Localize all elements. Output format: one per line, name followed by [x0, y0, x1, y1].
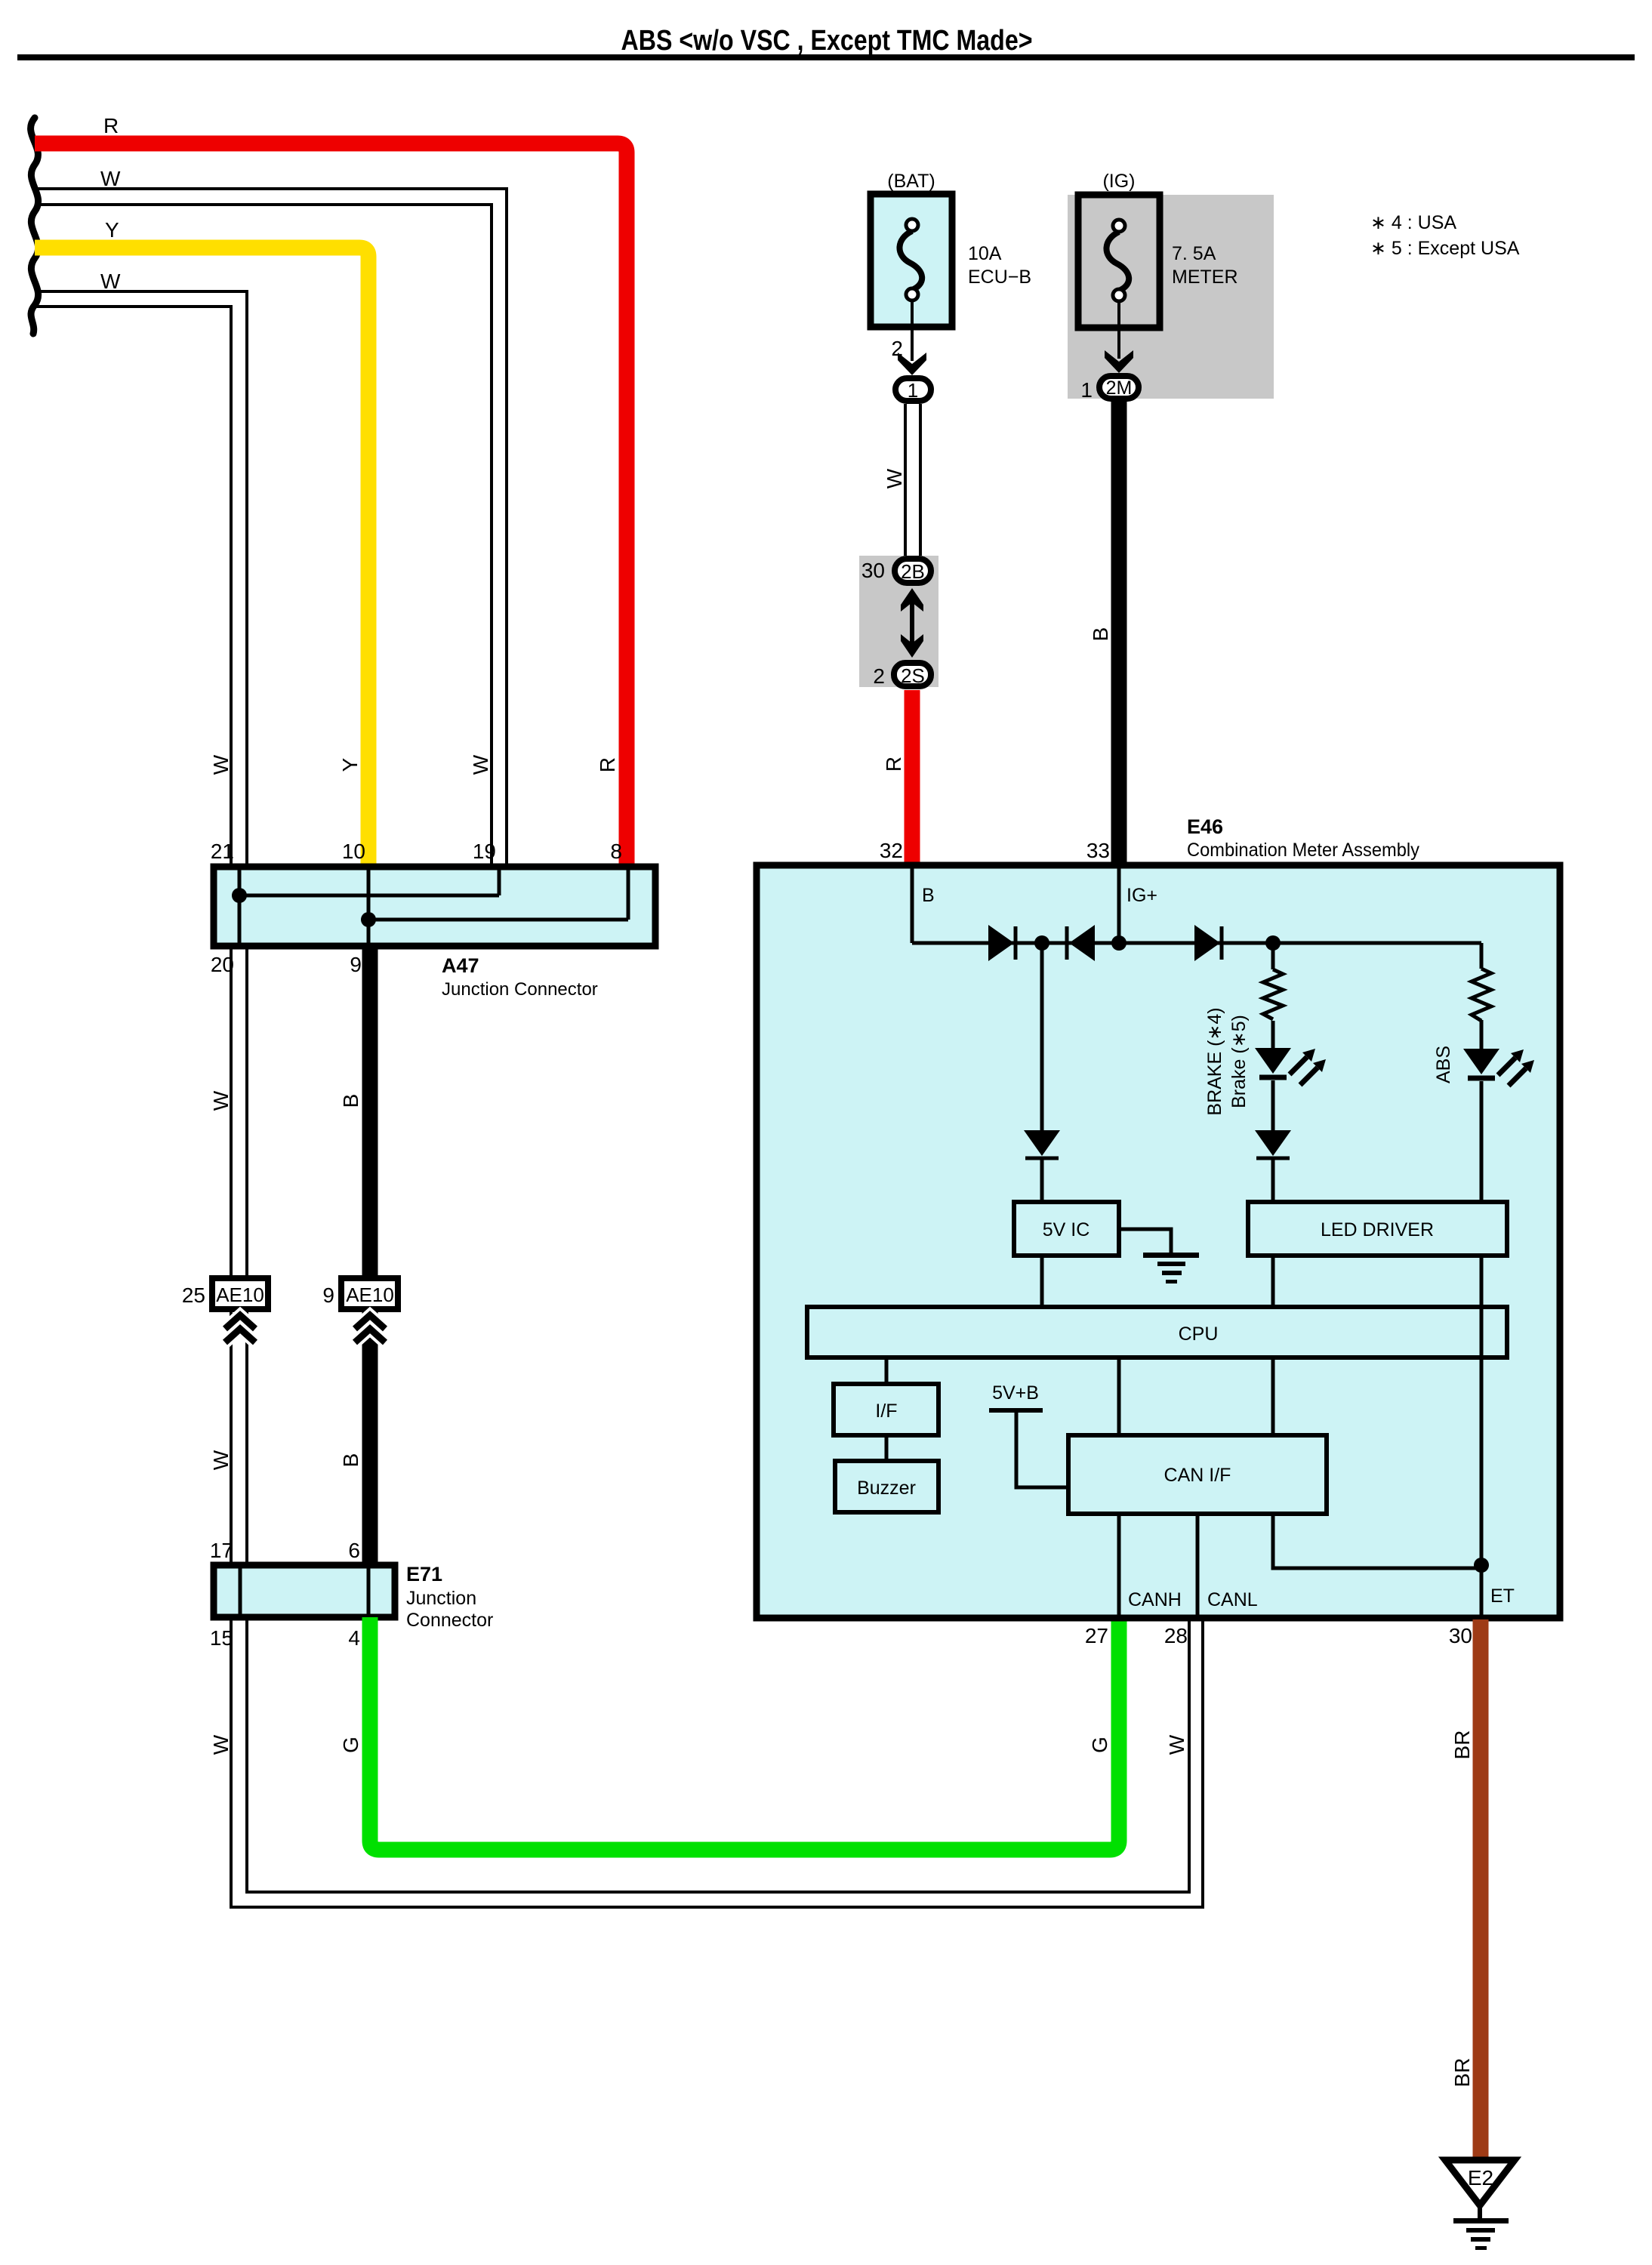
- svg-text:W: W: [209, 1090, 233, 1111]
- A47 internal link 10-8: [368, 918, 628, 922]
- wire W (left harness to A47 pin 21) : double line: [35, 291, 247, 867]
- svg-text:1: 1: [1080, 378, 1093, 402]
- in-line connector AE10 (pin 25, W wire): [212, 1278, 268, 1309]
- svg-text:2: 2: [873, 664, 885, 688]
- junction dot (D1/D2 node): [1034, 935, 1049, 951]
- svg-text:∗ 4 : USA: ∗ 4 : USA: [1370, 212, 1456, 233]
- svg-text:28: 28: [1164, 1624, 1188, 1647]
- svg-text:Brake (∗5): Brake (∗5): [1228, 1015, 1250, 1108]
- 5V IC block: [1014, 1202, 1119, 1256]
- connector oval 2M: [1099, 376, 1139, 399]
- connector oval 1: [895, 378, 931, 402]
- CPU block: [807, 1307, 1507, 1357]
- svg-text:G: G: [1088, 1736, 1111, 1753]
- svg-text:B: B: [922, 885, 935, 906]
- wire CPU to CAN I/F (CANH): [1117, 1357, 1121, 1435]
- A47 internal stub pin19: [498, 870, 501, 895]
- svg-text:E2: E2: [1468, 2166, 1493, 2189]
- junction dot (BRAKE branch): [1265, 935, 1281, 951]
- svg-text:B: B: [339, 1453, 362, 1468]
- svg-text:25: 25: [182, 1283, 205, 1307]
- arrow into connector 2M: [1105, 350, 1133, 373]
- gray panel behind METER fuse: [1068, 195, 1274, 399]
- svg-text:CANH: CANH: [1128, 1589, 1182, 1610]
- BRAKE branch: resistor R1: [1271, 943, 1275, 969]
- ET net vertical through CPU: [1480, 1309, 1484, 1616]
- svg-text:B: B: [339, 1094, 362, 1108]
- power rail horizontal: [912, 941, 1481, 945]
- E71 internal bus pin17-pin15: [239, 1568, 242, 1614]
- svg-text:ET: ET: [1490, 1585, 1515, 1607]
- IG+ net vertical inside E46: [1117, 868, 1121, 943]
- svg-text:W: W: [883, 468, 906, 488]
- svg-text:8: 8: [610, 840, 622, 863]
- CANH net vertical: [1117, 1514, 1121, 1616]
- svg-text:BR: BR: [1450, 2058, 1474, 2088]
- svg-text:30: 30: [1449, 1624, 1472, 1647]
- Buzzer block: [835, 1461, 938, 1512]
- svg-text:9: 9: [350, 953, 362, 976]
- svg-text:17: 17: [210, 1539, 233, 1562]
- CAN I/F to ET link: [1273, 1514, 1481, 1568]
- wire 5V IC to CPU: [1040, 1256, 1044, 1307]
- B net vertical inside E46: [911, 868, 914, 943]
- A47 internal bus pin10-pin9: [367, 870, 371, 943]
- svg-text:ABS <w/o VSC , Except TMC Made: ABS <w/o VSC , Except TMC Made>: [621, 25, 1033, 57]
- svg-text:G: G: [339, 1736, 362, 1753]
- wire B (2M to E46 pin 33): [1111, 402, 1127, 865]
- harness tear squiggle at left edge: [31, 118, 39, 334]
- svg-text:2S: 2S: [901, 664, 925, 687]
- svg-text:CAN I/F: CAN I/F: [1164, 1465, 1231, 1486]
- svg-text:AE10: AE10: [346, 1283, 394, 1306]
- svg-text:R: R: [596, 757, 619, 772]
- svg-text:21: 21: [211, 840, 234, 863]
- svg-text:AE10: AE10: [216, 1283, 264, 1306]
- svg-text:6: 6: [348, 1539, 360, 1562]
- svg-text:9: 9: [322, 1283, 334, 1307]
- wire B (A47 pin 9 to E71 pin 6): [362, 946, 378, 1565]
- svg-text:(IG): (IG): [1102, 171, 1135, 192]
- svg-text:W: W: [469, 754, 492, 775]
- svg-text:R: R: [882, 757, 905, 772]
- junction connector A47: [214, 867, 655, 946]
- svg-text:Buzzer: Buzzer: [857, 1478, 916, 1499]
- svg-text:1: 1: [908, 379, 918, 402]
- gray panel behind 2B/2S: [859, 556, 938, 687]
- wire LED DRIVER to CPU (left): [1271, 1256, 1275, 1307]
- svg-text:Y: Y: [105, 218, 119, 242]
- svg-text:Combination Meter Assembly: Combination Meter Assembly: [1187, 840, 1419, 861]
- svg-text:I/F: I/F: [875, 1401, 897, 1422]
- A47 internal bus pin21-pin20: [238, 870, 242, 943]
- wire CPU to CAN I/F (right): [1271, 1357, 1275, 1435]
- connector oval 2S: [894, 663, 931, 687]
- wire Y (left harness to A47 pin 10): [35, 248, 368, 867]
- fuse METER (IG): [1078, 171, 1160, 328]
- svg-text:E46: E46: [1187, 815, 1223, 838]
- ground bars: [1143, 1253, 1199, 1258]
- svg-text:CANL: CANL: [1207, 1589, 1258, 1610]
- 5V branch vertical: [1040, 943, 1044, 1130]
- wire CPU to I/F: [885, 1357, 889, 1384]
- svg-text:32: 32: [880, 839, 903, 862]
- svg-text:R: R: [103, 114, 119, 137]
- svg-text:METER: METER: [1172, 267, 1238, 288]
- svg-text:W: W: [100, 270, 121, 293]
- ABS branch: corner from rail: [1480, 943, 1484, 969]
- internal ground from 5V IC: [1120, 1229, 1171, 1253]
- BRAKE warning LED: [1255, 1048, 1291, 1074]
- wire BR (E46 pin 30 to E2): [1473, 1619, 1489, 2158]
- svg-text:Y: Y: [338, 757, 362, 772]
- fuse output lead with arrow: [1117, 301, 1120, 359]
- A47 internal stub pin8: [627, 870, 630, 920]
- junction dot (ET node): [1474, 1558, 1489, 1573]
- svg-text:LED DRIVER: LED DRIVER: [1321, 1219, 1434, 1240]
- svg-text:ABS: ABS: [1433, 1046, 1454, 1083]
- svg-text:ECU−B: ECU−B: [968, 267, 1031, 288]
- svg-text:CPU: CPU: [1179, 1324, 1219, 1345]
- in-line connector AE10 (pin 9, B wire): [341, 1278, 398, 1309]
- ground E2: [1445, 2160, 1515, 2250]
- wire I/F to Buzzer: [885, 1435, 889, 1461]
- wire G (E71 pin 4 to E46 pin 27): [370, 1617, 1119, 1850]
- chevron marks below AE10 (B): [355, 1315, 385, 1342]
- junction dot (IG+ node): [1111, 935, 1127, 951]
- diode D5 (down, BRAKE branch): [1255, 1130, 1291, 1156]
- svg-text:5V+B: 5V+B: [992, 1382, 1039, 1404]
- chevron marks below AE10 (W): [225, 1315, 255, 1342]
- svg-text:IG+: IG+: [1127, 885, 1157, 906]
- svg-text:∗ 5 : Except USA: ∗ 5 : Except USA: [1370, 238, 1520, 259]
- junction dot at pin21 bus: [232, 888, 247, 903]
- svg-text:B: B: [1089, 627, 1112, 642]
- CANL net vertical: [1196, 1514, 1200, 1616]
- svg-text:Connector: Connector: [406, 1610, 493, 1631]
- svg-text:2M: 2M: [1106, 377, 1133, 399]
- resistor R2 (ABS): [1472, 969, 1491, 1021]
- wire W (left harness to A47 pin 19) : double line: [35, 189, 507, 867]
- 5V+B supply symbol: [989, 1408, 1043, 1413]
- svg-text:2B: 2B: [901, 560, 925, 583]
- svg-text:5V IC: 5V IC: [1043, 1219, 1090, 1240]
- diode D4 (down, into 5V IC): [1024, 1130, 1060, 1156]
- svg-text:A47: A47: [442, 954, 479, 977]
- diode D1 (B to rail): [988, 925, 1014, 961]
- svg-text:33: 33: [1086, 839, 1110, 862]
- svg-text:BRAKE (∗4): BRAKE (∗4): [1204, 1007, 1225, 1115]
- svg-text:BR: BR: [1450, 1730, 1474, 1760]
- LED emission arrows (BRAKE): [1290, 1049, 1326, 1085]
- LED DRIVER block: [1248, 1202, 1507, 1256]
- wire R (left harness to A47 pin 8): [35, 143, 627, 867]
- svg-text:7. 5A: 7. 5A: [1172, 243, 1216, 264]
- svg-text:W: W: [209, 754, 233, 775]
- diode D3 (rail right): [1194, 925, 1220, 961]
- ABS branch to LED DRIVER: [1480, 1081, 1484, 1202]
- svg-text:E71: E71: [406, 1563, 442, 1585]
- diode D2 (IG+ to node, pointing left): [1069, 925, 1095, 961]
- wire R (2S to E46 pin 32): [905, 690, 920, 865]
- svg-text:4: 4: [348, 1626, 360, 1650]
- connector oval 2B: [895, 559, 931, 583]
- arrow into connector 1: [898, 353, 926, 375]
- CAN I/F block: [1068, 1435, 1327, 1514]
- svg-text:27: 27: [1085, 1624, 1108, 1647]
- svg-text:Junction: Junction: [406, 1588, 476, 1609]
- combination meter assembly E46: [757, 865, 1560, 1618]
- svg-text:30: 30: [861, 559, 885, 582]
- title rule: [17, 54, 1635, 60]
- svg-text:Junction Connector: Junction Connector: [442, 979, 598, 1000]
- wire W (E71 pin 15 to E46 pin 28) : double line: [247, 1617, 1189, 1892]
- svg-text:W: W: [209, 1450, 233, 1470]
- svg-text:(BAT): (BAT): [887, 171, 935, 192]
- junction connector E71: [214, 1565, 395, 1617]
- fuse output lead with arrow: [911, 300, 914, 361]
- svg-text:10A: 10A: [968, 243, 1002, 264]
- fuse ECU-B (BAT): [871, 171, 952, 327]
- double arrow link 2B-2S: [901, 588, 923, 612]
- wire LED DRIVER to ET line: [1480, 1256, 1484, 1307]
- wire W (connector 1 to 2B) : double line: [904, 404, 907, 556]
- svg-text:10: 10: [342, 840, 365, 863]
- svg-text:W: W: [1165, 1734, 1188, 1755]
- svg-text:W: W: [209, 1734, 233, 1755]
- junction dot at pin10 bus: [361, 912, 376, 927]
- E71 internal bus pin6-pin4: [367, 1568, 371, 1614]
- LED emission arrows (ABS): [1498, 1049, 1534, 1086]
- A47 internal link 21-19: [239, 894, 499, 898]
- svg-text:19: 19: [473, 840, 496, 863]
- I/F block: [834, 1384, 938, 1435]
- wire W (A47 pin 20 to E71 pin 17) : double line: [230, 946, 233, 1565]
- ABS warning LED: [1463, 1049, 1499, 1074]
- svg-text:W: W: [100, 167, 121, 190]
